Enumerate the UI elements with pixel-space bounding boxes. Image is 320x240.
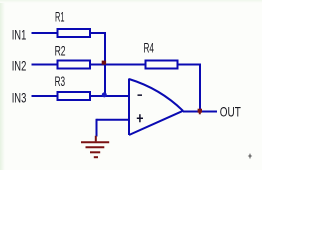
wire op-amp noninverting input: [97, 119, 130, 121]
ground: [81, 136, 109, 157]
junction dot node B (R3 row, blue): [102, 92, 107, 97]
svg-text:OUT: OUT: [220, 104, 241, 120]
op-amp plus sign: [137, 114, 143, 122]
junction dot node A (R2 row, maroon): [102, 61, 106, 65]
resistor R2: [58, 61, 91, 69]
svg-text:R3: R3: [55, 73, 66, 89]
resistor R1: [58, 29, 91, 37]
resistor R4: [146, 61, 178, 69]
svg-text:IN2: IN2: [12, 57, 27, 73]
wire R1 to bus: [91, 32, 106, 34]
wire IN1 to R1: [32, 32, 57, 34]
svg-text:IN1: IN1: [12, 26, 27, 42]
junction dot output node (maroon): [198, 109, 202, 113]
wire IN2 to R2: [32, 64, 57, 66]
wire R3 to op-amp inverting input: [91, 95, 129, 97]
op-amp minus sign: [138, 94, 143, 96]
svg-text:IN3: IN3: [12, 89, 27, 105]
wire output: [183, 111, 217, 113]
svg-text:R2: R2: [55, 43, 66, 59]
cursor star mark: [248, 153, 253, 159]
wire to ground vertical: [96, 119, 98, 137]
wire R4 to feedback corner: [178, 64, 201, 66]
wire feedback vertical: [199, 64, 201, 112]
op-amp U1: [129, 79, 183, 136]
wire bus vertical: [104, 32, 106, 96]
wire R2 to R4: [91, 64, 146, 66]
wire IN3 to R3: [32, 95, 57, 97]
svg-text:R4: R4: [144, 40, 155, 56]
svg-text:R1: R1: [55, 9, 65, 25]
resistor R3: [58, 92, 91, 100]
